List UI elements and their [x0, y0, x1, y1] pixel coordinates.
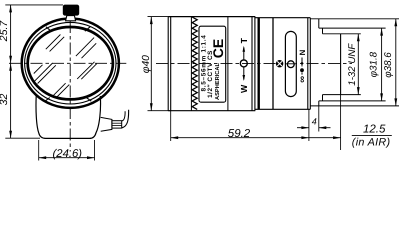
outer ring circle [22, 19, 119, 108]
flange rear edge top [318, 19, 320, 28]
svg-text:59.2: 59.2 [228, 128, 251, 140]
svg-text:W: W [239, 84, 249, 93]
svg-text:∞: ∞ [297, 76, 308, 83]
svg-text:T: T [239, 37, 249, 43]
arrowheads dim 25.7 [9, 5, 12, 12]
dim 4 dimension line [297, 127, 309, 129]
svg-text:φ31.8: φ31.8 [369, 51, 380, 77]
barrel front face double line [167, 17, 169, 111]
glass glare left-middle [35, 63, 53, 81]
groove dark band [258, 18, 260, 110]
section line [272, 18, 274, 110]
wire vertical centerline front view [69, 21, 71, 152]
dim 25.7 top extension line [5, 4, 63, 6]
thread tube bottom edge + UNF extension [323, 94, 361, 96]
ring notch lower-left [45, 98, 49, 101]
dim 4 extension lines [308, 109, 310, 141]
arrowheads dim UNF [357, 34, 360, 42]
thumbscrew knob [63, 5, 79, 16]
rear section top edge [255, 17, 310, 19]
dim 12.5 underline [352, 134, 392, 136]
rear double line [307, 18, 309, 110]
svg-text:φ40: φ40 [141, 55, 152, 73]
dim phi40 extension lines [148, 16, 171, 18]
step top edge + phi31.8 extension [319, 27, 386, 29]
ring notch upper-left [46, 27, 51, 31]
knurl edge line [190, 17, 192, 111]
svg-text:12.5: 12.5 [363, 123, 386, 135]
barrel top edge [168, 16, 255, 18]
arrowhead focus indicator [301, 62, 303, 67]
arrowhead dim 12.5 [333, 136, 341, 139]
wire horizontal centerline side view [156, 63, 352, 65]
dim phi31.8 dimension line [381, 28, 383, 101]
ring notch upper-right [85, 27, 90, 31]
rear section bottom edge [255, 108, 310, 110]
wire horizontal centerline front view [9, 62, 126, 64]
flange rear edge bottom [318, 101, 320, 106]
arrowheads dim 4 [301, 126, 309, 129]
svg-text:32: 32 [0, 94, 10, 106]
knurl zigzag [192, 17, 197, 109]
svg-text:CE: CE [210, 39, 226, 58]
dim 59.2 extension line left [170, 111, 172, 141]
thread tube top edge + UNF extension [323, 33, 361, 35]
lens body front view [36, 96, 101, 138]
dim 25.7 / 32 vertical dimension line [10, 5, 12, 138]
arrowheads dim 32 [9, 63, 12, 71]
cable curves [122, 110, 129, 128]
dim 32 bottom extension line [5, 137, 40, 139]
dim (24.6) dimension line [39, 157, 95, 159]
svg-text:ASPHERICAL: ASPHERICAL [215, 62, 221, 99]
zoom indicator circle [240, 60, 247, 67]
knurl right edge line [227, 17, 229, 111]
svg-text:25.7: 25.7 [0, 20, 10, 43]
cable nipple [112, 121, 122, 128]
glass glare right-middle [77, 62, 94, 79]
flange bottom edge + phi38.6 extension [310, 105, 399, 107]
dim phi38.6 dimension line [395, 19, 397, 106]
zoom ring end double line [251, 17, 253, 111]
dim (24.6) extension lines [38, 140, 40, 161]
cable gland on body [101, 117, 112, 131]
svg-text:φ38.6: φ38.6 [383, 52, 394, 78]
barrel bottom edge [168, 110, 255, 112]
focus indicator arrow [301, 58, 303, 65]
focus indicator dot [300, 68, 304, 72]
thumbscrew neck [66, 16, 76, 21]
step bottom edge + phi31.8 extension [319, 100, 386, 102]
zoom indicator arrows [243, 48, 245, 60]
flange top edge + phi38.6 extension [310, 18, 399, 20]
image plane extension line [340, 95, 342, 150]
dim 59.2 / 12.5 dimension line [171, 137, 341, 139]
glass glare upper-right [76, 38, 94, 57]
inner retaining ring circle [28, 27, 113, 99]
arrowheads dim phi31.8 [380, 28, 383, 35]
glass glare upper-left [46, 35, 61, 50]
glass glare bottom [52, 83, 66, 97]
arrowheads zoom indicator [243, 46, 246, 52]
arrowheads dim phi38.6 [394, 19, 397, 27]
arrowheads dim phi40 [150, 17, 153, 25]
middle ring circle [25, 22, 116, 104]
svg-text:N: N [298, 49, 307, 55]
arrowheads dim 24.6 [39, 156, 47, 159]
svg-text:1-32 UNF: 1-32 UNF [347, 43, 358, 86]
svg-text:(24.6): (24.6) [53, 148, 83, 160]
ring notch lower-right [86, 98, 91, 102]
svg-text:(in AIR): (in AIR) [352, 136, 391, 148]
slot screw [287, 61, 294, 68]
lock screw [276, 60, 283, 67]
dim UNF dimension line [357, 34, 359, 95]
arrowheads dim 59.2 [171, 136, 179, 139]
adjustment slot [285, 31, 296, 96]
svg-text:4: 4 [312, 116, 317, 126]
step rear edge top [322, 28, 324, 34]
label box [199, 26, 226, 102]
thread tube rear face [340, 34, 342, 95]
step rear edge bottom [322, 95, 324, 101]
dim phi40 dimension line [150, 17, 152, 111]
